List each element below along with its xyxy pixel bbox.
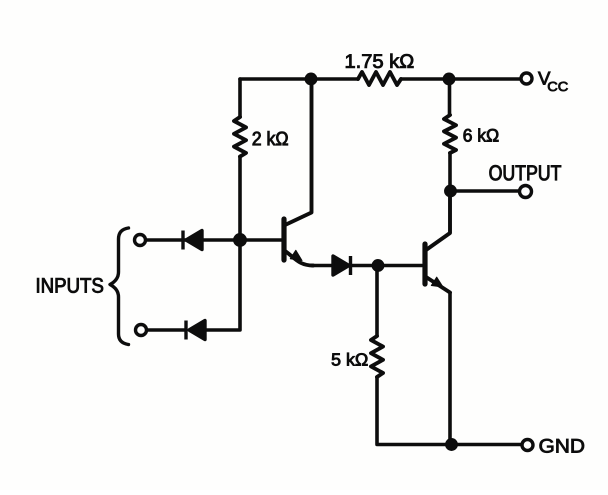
wire input row 1 (146, 238, 240, 242)
transistor Q1 (284, 79, 313, 266)
wire 5k branch top (375, 266, 379, 337)
node junction top 6k (443, 73, 455, 85)
diode D1 input 1 (183, 231, 202, 250)
wire top rail right segment (401, 77, 520, 81)
resistor R1 1.75 kOhm (358, 72, 401, 85)
wire output lead (451, 189, 520, 193)
node base Q2 junction (372, 260, 384, 272)
node ground junction (446, 439, 458, 451)
terminal OUTPUT (520, 186, 532, 198)
wire top rail left segment (240, 77, 358, 81)
resistor R3 6 kOhm (444, 115, 456, 153)
label 5 kOhm (332, 353, 368, 366)
label GND (540, 439, 584, 453)
diode D3 level shift (333, 256, 351, 275)
terminal input 1 (135, 235, 146, 246)
label 1.75 kOhm (346, 54, 413, 68)
wire 6k branch top (448, 79, 452, 115)
wire 5k branch bottom with corner to ground rail (377, 377, 452, 445)
resistor R4 5 kOhm (371, 336, 383, 377)
label Vcc (538, 72, 568, 91)
diode D2 input 2 (186, 321, 205, 340)
wire left vertical node to lower corner (205, 240, 240, 330)
label 2 kOhm (253, 131, 288, 145)
label 6 kOhm (464, 129, 499, 142)
node diode input junction (234, 234, 247, 247)
wire 2k branch top (238, 79, 242, 117)
label INPUTS (37, 278, 103, 293)
terminal GND (522, 440, 533, 451)
wire input row 2 (147, 328, 186, 332)
terminal Vcc (521, 73, 532, 84)
resistor R2 2 kOhm (234, 117, 246, 157)
wire Q1 base lead (240, 238, 282, 242)
wire Q1 emitter to Q2 base (312, 264, 422, 268)
wire left vertical to diode node (238, 157, 242, 240)
node junction top collector Q1 (305, 73, 317, 85)
label OUTPUT (490, 165, 562, 180)
node output junction (445, 185, 457, 197)
wire Q2 emitter vertical to ground (448, 293, 452, 445)
wire 6k branch bottom to output node (448, 153, 452, 191)
wire ground rail (452, 443, 522, 447)
terminal input 2 (136, 325, 147, 336)
brace inputs (110, 228, 129, 345)
transistor Q2 (425, 191, 450, 293)
